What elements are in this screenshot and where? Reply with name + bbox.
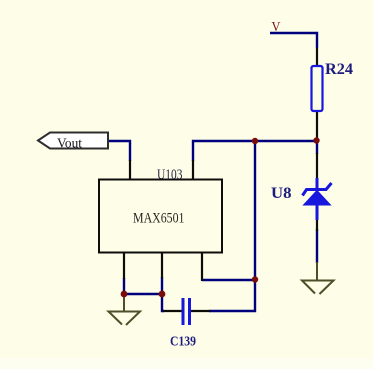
- svg-text:U8: U8: [271, 185, 292, 202]
- svg-text:C139: C139: [170, 335, 196, 350]
- svg-text:V: V: [272, 20, 281, 35]
- svg-text:R24: R24: [325, 61, 353, 78]
- svg-text:Vout: Vout: [57, 137, 82, 152]
- svg-text:MAX6501: MAX6501: [133, 211, 185, 227]
- svg-text:U103: U103: [157, 167, 183, 183]
